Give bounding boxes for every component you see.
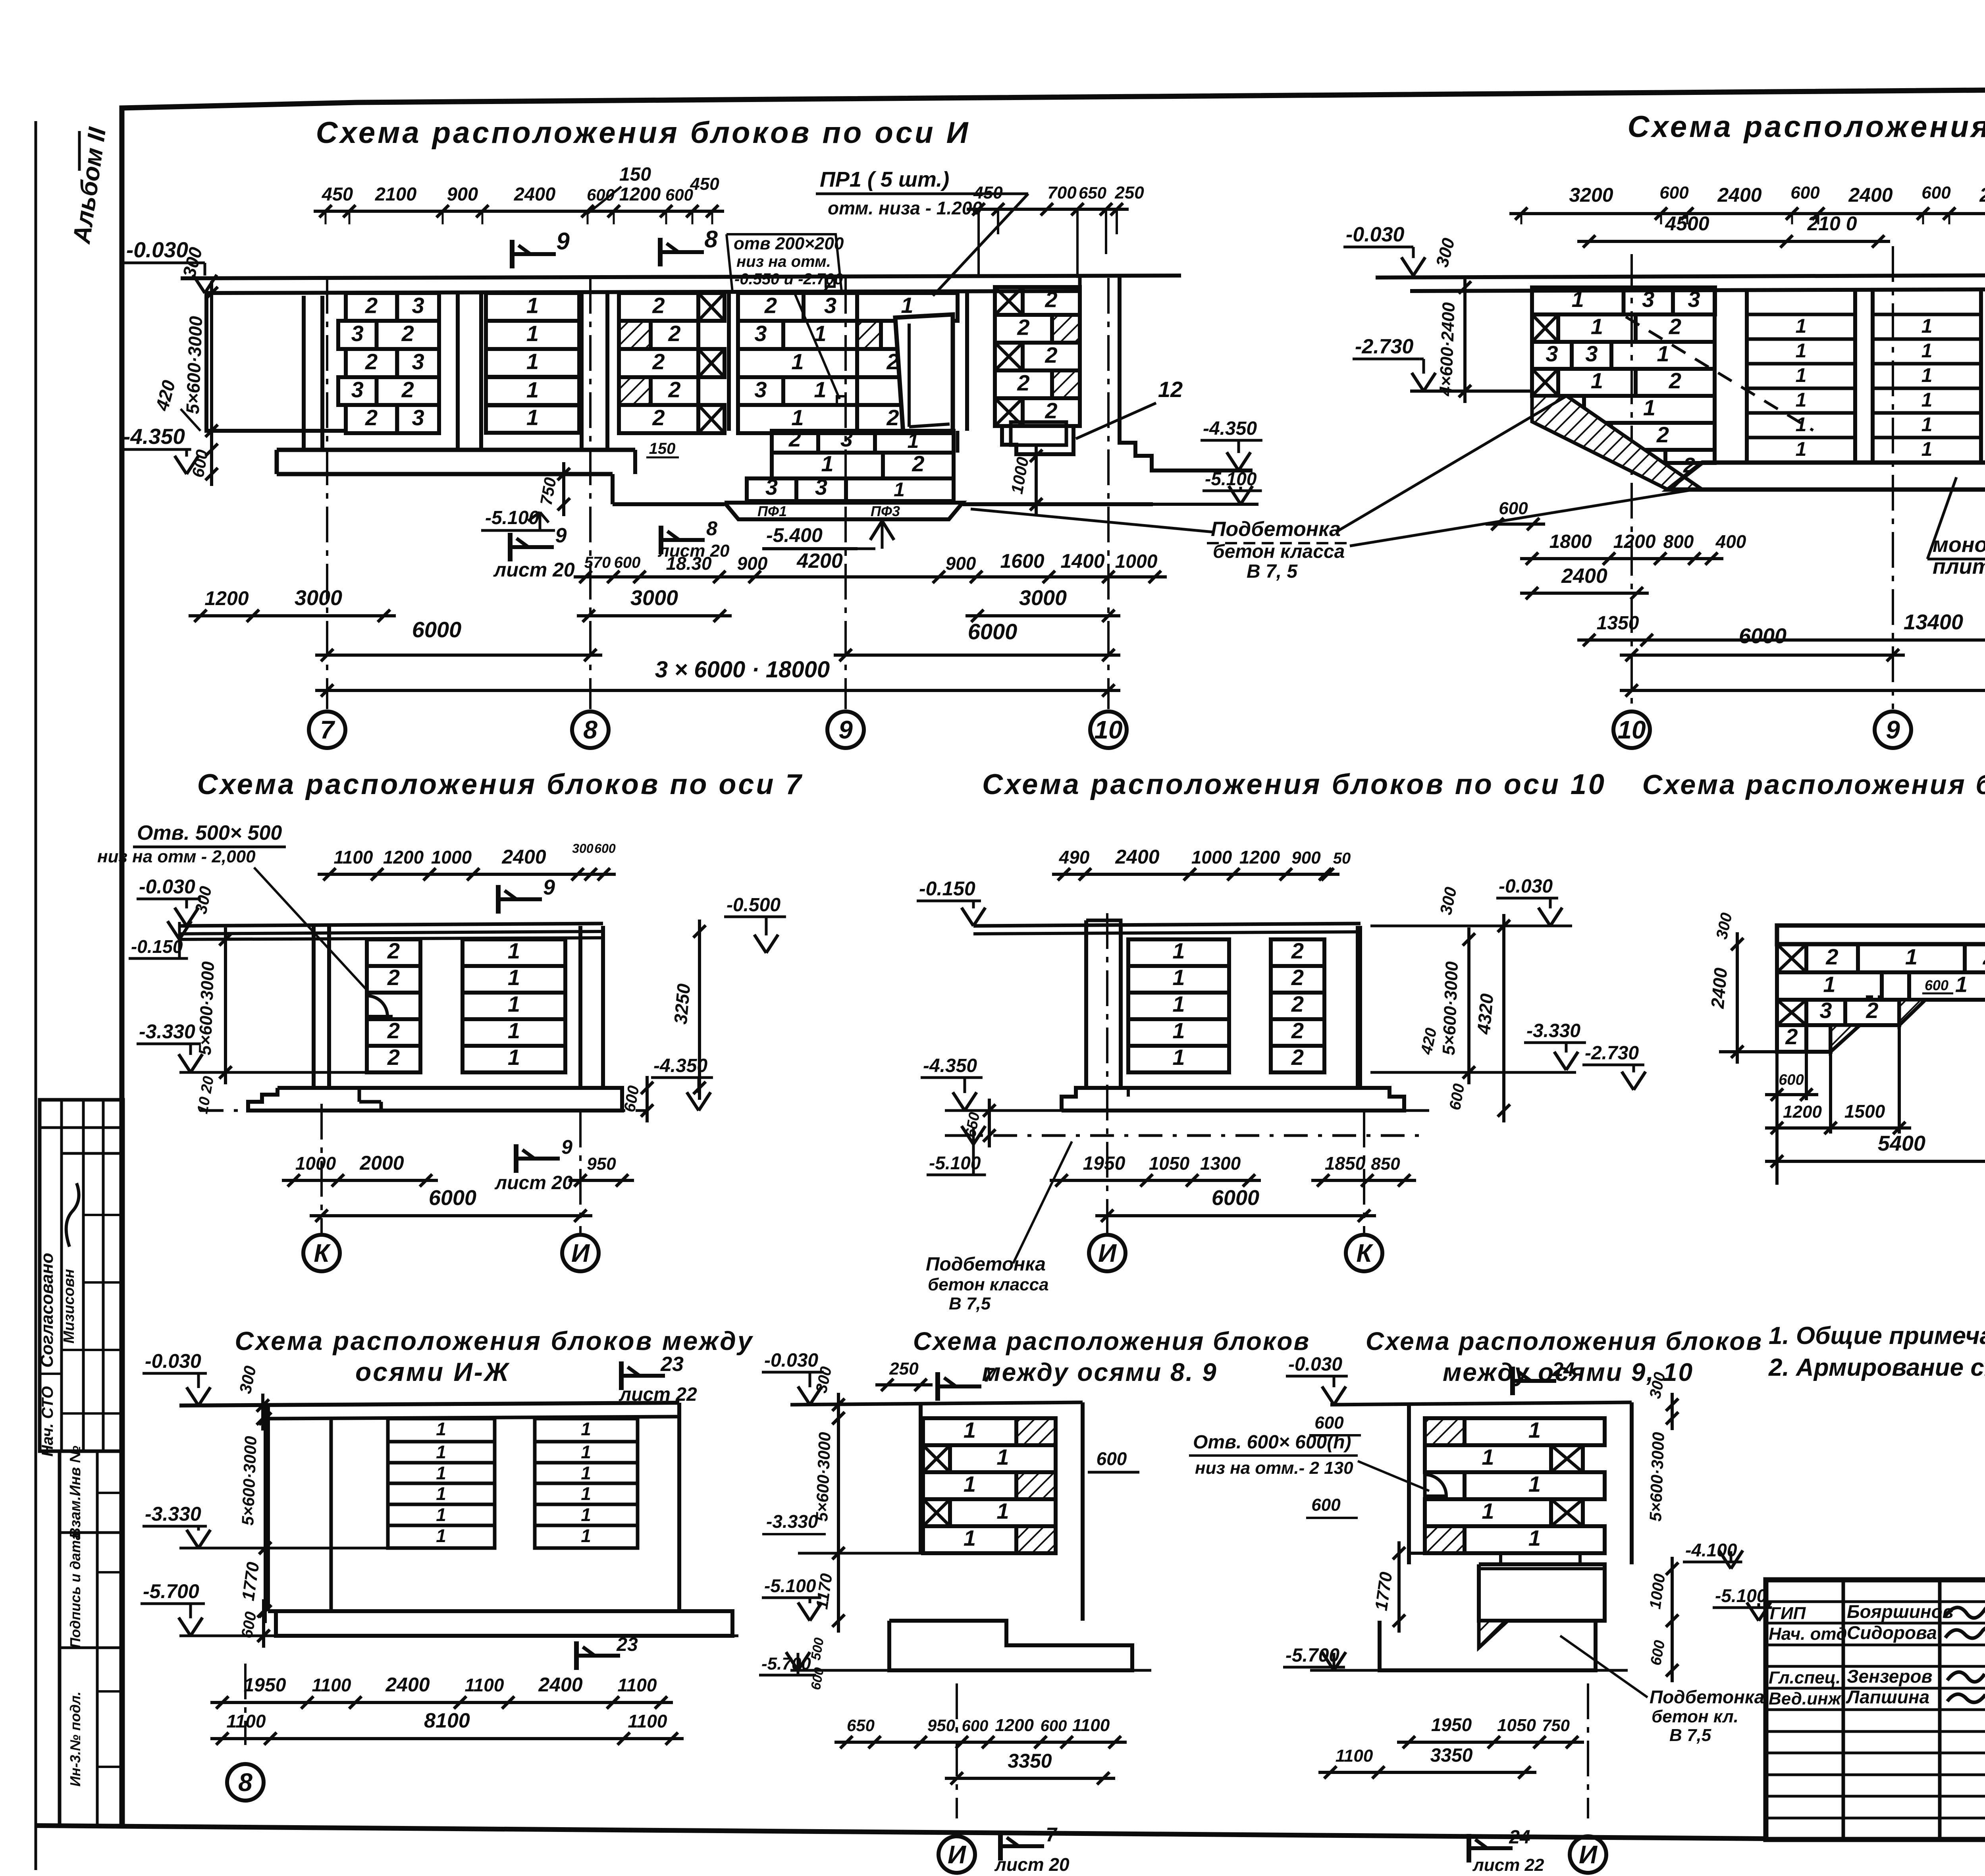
svg-text:Схема расположения блоков м: Схема расположения блоков между: [235, 1326, 754, 1355]
svg-text:900: 900: [737, 553, 768, 574]
svg-text:600: 600: [594, 841, 616, 856]
svg-text:1: 1: [1172, 965, 1185, 990]
svg-text:1: 1: [436, 1442, 446, 1462]
d7 bottom dims 1950-1100-2400-1100-2400-1100: [210, 1701, 673, 1704]
svg-text:2: 2: [652, 293, 665, 318]
svg-text:1: 1: [1657, 341, 1669, 366]
svg-text:1: 1: [1643, 395, 1655, 420]
d1 central block group D: [738, 293, 804, 321]
svg-text:1600: 1600: [1000, 550, 1044, 572]
svg-text:1: 1: [581, 1483, 591, 1504]
d2 dim row 1350-13400-3250: [1577, 638, 1985, 642]
svg-text:Схема расположения блоков п: Схема расположения блоков по оси 7: [197, 769, 804, 800]
svg-text:2400: 2400: [514, 183, 556, 204]
d4 ground lines: [973, 924, 1361, 926]
svg-text:И: И: [1098, 1239, 1117, 1267]
svg-text:400: 400: [1715, 531, 1746, 552]
svg-text:9: 9: [543, 875, 555, 899]
svg-text:5×600·3000: 5×600·3000: [195, 961, 218, 1055]
svg-text:1: 1: [1482, 1498, 1494, 1523]
svg-text:8: 8: [704, 226, 718, 253]
svg-text:6000: 6000: [1739, 624, 1786, 648]
svg-text:между осями 8. 9: между осями 8. 9: [982, 1358, 1218, 1386]
svg-text:650: 650: [847, 1716, 875, 1735]
d3 wall left column: [312, 926, 316, 1088]
d4 dim 6000: [1095, 1214, 1376, 1217]
d5 wall bottom and verticals: [1777, 1050, 1831, 1054]
svg-text:ПР1 ( 5 шт.): ПР1 ( 5 шт.): [820, 168, 949, 191]
svg-text:Согласовано: Согласовано: [37, 1253, 57, 1367]
svg-text:1100: 1100: [465, 1675, 504, 1695]
d4 wall right edge: [1356, 926, 1360, 1088]
svg-text:1100: 1100: [1336, 1746, 1373, 1766]
svg-text:1: 1: [1905, 944, 1918, 969]
d3 section flag 9 bottom: [514, 1144, 518, 1173]
d5 row1 X-2-1-2: [1777, 944, 1806, 972]
d4 foundation: [1062, 1088, 1404, 1111]
svg-text:Взам.Инв №: Взам.Инв №: [67, 1446, 84, 1539]
d5 level -2.730 left line: [1719, 1050, 1777, 1053]
svg-text:Схема расположения блоков п: Схема расположения блоков по А-А: [1628, 110, 1985, 144]
d2 dashed diagonal: [1626, 317, 1813, 430]
svg-text:низ на отм.- 2 130: низ на отм.- 2 130: [1195, 1458, 1353, 1478]
svg-text:6000: 6000: [429, 1186, 476, 1210]
svg-text:13400: 13400: [1904, 610, 1963, 634]
svg-text:ГИП: ГИП: [1770, 1604, 1806, 1623]
axis circle I4: [1587, 1683, 1589, 1818]
svg-text:-2.730: -2.730: [1585, 1043, 1639, 1064]
svg-text:1: 1: [1796, 389, 1807, 411]
d3 top dim row: [318, 873, 616, 876]
svg-text:бетон класса: бетон класса: [1213, 541, 1345, 562]
d2 top dimension row: [1509, 212, 1985, 215]
svg-text:7: 7: [320, 715, 335, 744]
svg-text:ПФ3: ПФ3: [871, 503, 900, 519]
d4 wall left column: [1086, 920, 1121, 926]
svg-text:1: 1: [1921, 315, 1933, 337]
svg-text:2400: 2400: [1717, 184, 1761, 206]
d1 top dimension line 450-2100-900-2400-600-1200-600-450: [314, 210, 724, 213]
d3 section flag 9: [496, 885, 501, 914]
d1 lintel PR1 outline: [895, 314, 953, 433]
svg-text:Нач. отд: Нач. отд: [1769, 1624, 1847, 1644]
d1 block stack A rows 2-3: [346, 293, 397, 321]
svg-text:Гл.спец.: Гл.спец.: [1769, 1668, 1840, 1687]
svg-text:1200: 1200: [1783, 1102, 1822, 1122]
svg-text:Ин-3.№ подл.: Ин-3.№ подл.: [67, 1691, 83, 1787]
svg-text:1: 1: [436, 1525, 446, 1546]
svg-text:2400: 2400: [1115, 846, 1159, 868]
d1 lower dim row 570-600-1830-900-4200-900-1600-1400-1000: [574, 575, 1167, 578]
svg-text:900: 900: [946, 553, 976, 574]
svg-text:2: 2: [668, 321, 680, 346]
d1 dim row 1200-3000 x3: [189, 614, 396, 617]
svg-text:3: 3: [351, 321, 364, 346]
svg-text:1: 1: [436, 1504, 446, 1525]
d3 ground lines: [179, 924, 603, 926]
svg-text:1: 1: [1796, 364, 1807, 386]
svg-text:950: 950: [587, 1154, 616, 1174]
svg-text:В 7, 5: В 7, 5: [1247, 561, 1298, 582]
svg-text:-4.350: -4.350: [1203, 418, 1257, 439]
svg-text:1: 1: [1955, 972, 1968, 997]
svg-text:210 0: 210 0: [1807, 212, 1857, 235]
d3 bottom dim 1000-2000: [282, 1179, 438, 1182]
svg-text:1200: 1200: [1613, 531, 1656, 552]
svg-text:1: 1: [996, 1444, 1009, 1469]
d3 dim 950: [569, 1179, 634, 1182]
svg-text:1: 1: [1921, 438, 1933, 460]
svg-text:-0.030: -0.030: [764, 1350, 818, 1371]
svg-text:600: 600: [614, 554, 641, 571]
svg-text:Подпись и дата: Подпись и дата: [67, 1532, 83, 1648]
svg-text:-3.330: -3.330: [145, 1503, 201, 1525]
svg-text:1: 1: [1528, 1417, 1541, 1442]
svg-text:1100: 1100: [618, 1675, 657, 1695]
svg-text:1200: 1200: [204, 587, 249, 609]
svg-text:3350: 3350: [1008, 1750, 1052, 1772]
d1 section flag 9: [510, 240, 515, 268]
svg-text:Лапшина: Лапшина: [1846, 1687, 1929, 1707]
d8 flag 7 bottom: [998, 1832, 1003, 1861]
svg-text:1: 1: [526, 405, 539, 430]
d4 bedding dashed: [945, 1109, 1429, 1112]
svg-text:1: 1: [964, 1471, 976, 1496]
d3 foundation: [248, 1088, 622, 1111]
svg-text:600: 600: [1041, 1717, 1067, 1735]
svg-text:2. Армирование стен смотрет: 2. Армирование стен смотреть на листах 2…: [1768, 1354, 1985, 1381]
svg-text:2400: 2400: [1561, 565, 1607, 588]
svg-text:1: 1: [1921, 339, 1933, 362]
d9 section flag 24: [1510, 1367, 1515, 1395]
svg-text:9: 9: [556, 228, 570, 255]
axis line 7: [326, 278, 328, 709]
svg-text:2400: 2400: [501, 846, 546, 868]
d3 bottom level dashed: [200, 1109, 649, 1112]
svg-text:2: 2: [387, 1045, 400, 1070]
d5 row4 2 hatch: [1777, 1025, 1806, 1052]
svg-text:3000: 3000: [630, 586, 678, 610]
svg-text:1000: 1000: [431, 847, 472, 868]
d5 row2 1-600-1: [1777, 972, 1882, 1000]
axis circle 10b: [1613, 711, 1650, 748]
svg-text:-5.700: -5.700: [143, 1580, 199, 1602]
title block outer: [1766, 1580, 1985, 1839]
svg-text:300: 300: [572, 841, 594, 856]
sheet outer edge line: [35, 121, 37, 1870]
svg-text:450: 450: [690, 174, 719, 194]
d5 dim 1200-1500: [1765, 1126, 1911, 1130]
svg-text:2: 2: [1291, 1018, 1304, 1043]
d9 dims 1100-3350: [1318, 1771, 1536, 1774]
svg-text:1: 1: [436, 1483, 446, 1504]
svg-text:2: 2: [387, 1018, 400, 1043]
svg-text:-5.400: -5.400: [766, 524, 823, 546]
d9 pedestal: [1479, 1564, 1605, 1621]
d7 foundation slab: [276, 1611, 732, 1636]
svg-text:1: 1: [791, 349, 804, 374]
d1 group D below-ground rows: [772, 431, 818, 453]
d8 bottom dims: [834, 1741, 1127, 1744]
svg-text:-0.150: -0.150: [131, 936, 183, 957]
d1 block stack C with cross boxes: [619, 293, 698, 321]
svg-text:1300: 1300: [1200, 1153, 1241, 1174]
d9 ground line: [1330, 1402, 1632, 1405]
axis circle 7: [309, 711, 345, 748]
svg-text:1: 1: [581, 1525, 591, 1546]
svg-text:В 7,5: В 7,5: [1669, 1726, 1711, 1745]
svg-text:3000: 3000: [1019, 586, 1067, 610]
d1 dim row 3x6000=18000: [315, 689, 1120, 692]
svg-text:1: 1: [508, 965, 520, 990]
d1 dim row 6000 right: [834, 654, 1120, 657]
svg-text:1100: 1100: [312, 1675, 351, 1695]
d8 bottom dashed: [790, 1669, 1151, 1672]
svg-text:бетон класса: бетон класса: [928, 1275, 1049, 1294]
sidebar lower table: [60, 1451, 123, 1826]
svg-text:3: 3: [1546, 341, 1558, 366]
svg-text:3: 3: [765, 474, 778, 499]
d2 dim 2400: [1520, 592, 1649, 595]
d9 wall lower part lines: [1409, 1552, 1479, 1555]
svg-text:1200: 1200: [995, 1716, 1034, 1735]
svg-text:1: 1: [814, 377, 826, 402]
svg-text:1: 1: [908, 430, 919, 453]
svg-text:650: 650: [1079, 183, 1106, 202]
podbetonka leader lines: [971, 509, 1213, 532]
svg-text:8: 8: [238, 1768, 252, 1797]
d4 brick stack 2s: [1271, 939, 1324, 966]
svg-text:1950: 1950: [244, 1675, 286, 1696]
svg-text:1000: 1000: [295, 1153, 336, 1174]
svg-text:5×600·3000: 5×600·3000: [1646, 1432, 1668, 1522]
svg-text:-0.500: -0.500: [727, 895, 781, 916]
svg-text:3: 3: [754, 321, 767, 346]
svg-text:2: 2: [387, 938, 400, 963]
svg-text:3250: 3250: [670, 983, 694, 1025]
svg-text:И: И: [571, 1239, 590, 1267]
axis circle 9: [827, 711, 864, 748]
axis circle 10: [1090, 711, 1127, 748]
svg-text:1: 1: [581, 1463, 591, 1483]
svg-text:-0.030: -0.030: [1346, 223, 1405, 246]
svg-text:4200: 4200: [796, 549, 843, 573]
svg-text:лист 20: лист 20: [493, 559, 575, 581]
svg-text:2: 2: [365, 349, 378, 374]
svg-text:250: 250: [1114, 183, 1144, 202]
svg-text:600: 600: [1921, 183, 1951, 202]
d3 dim 6000: [310, 1214, 592, 1217]
svg-text:осями И-Ж: осями И-Ж: [355, 1357, 510, 1386]
svg-text:1: 1: [508, 938, 520, 963]
svg-text:Зензеров: Зензеров: [1847, 1666, 1932, 1687]
svg-text:1: 1: [526, 377, 539, 402]
svg-text:3: 3: [815, 474, 827, 499]
svg-text:2100: 2100: [375, 183, 417, 204]
svg-text:1: 1: [508, 991, 520, 1016]
d1 pilaster column left: [302, 296, 306, 450]
svg-text:1: 1: [996, 1498, 1009, 1523]
svg-text:2: 2: [652, 405, 665, 430]
svg-text:6000: 6000: [968, 619, 1018, 644]
svg-text:50: 50: [1333, 850, 1351, 867]
svg-text:5×600·3000: 5×600·3000: [812, 1432, 834, 1522]
axis line 10b: [1630, 254, 1633, 709]
axis circle 8: [572, 711, 609, 748]
d3 wall right edge: [578, 926, 582, 1088]
d7 brick group 1: [388, 1419, 495, 1442]
svg-text:2: 2: [1983, 944, 1985, 969]
svg-text:8100: 8100: [424, 1709, 470, 1732]
svg-text:1950: 1950: [1431, 1714, 1472, 1735]
svg-text:2: 2: [668, 377, 680, 402]
svg-text:низ на отм - 2,000: низ на отм - 2,000: [97, 847, 256, 866]
svg-text:лист 22: лист 22: [1472, 1855, 1544, 1875]
svg-text:4×600·2400: 4×600·2400: [1436, 302, 1459, 397]
svg-text:2400: 2400: [1848, 184, 1892, 206]
svg-text:1350: 1350: [1597, 613, 1639, 634]
svg-text:1100: 1100: [334, 847, 373, 868]
d1 left vertical dim line: [210, 281, 213, 486]
svg-text:отв 200×200: отв 200×200: [734, 234, 844, 253]
svg-text:2: 2: [912, 451, 924, 476]
d1 left wall edge: [204, 293, 208, 433]
svg-text:5×600·3000: 5×600·3000: [1439, 961, 1462, 1055]
svg-text:1: 1: [508, 1045, 520, 1070]
svg-text:1200: 1200: [1239, 847, 1280, 868]
d7 dims 1100-8100-1100: [210, 1737, 684, 1740]
svg-text:9: 9: [561, 1136, 572, 1158]
frame bottom line: [36, 1826, 1766, 1839]
svg-text:бетон кл.: бетон кл.: [1652, 1707, 1738, 1726]
axis circle I: [579, 1112, 582, 1233]
svg-text:лист 20: лист 20: [657, 541, 730, 561]
d8 dim 3350: [945, 1777, 1115, 1780]
svg-text:3: 3: [412, 405, 424, 430]
svg-text:1100: 1100: [1072, 1716, 1110, 1735]
svg-text:2400: 2400: [1979, 184, 1985, 206]
svg-text:800: 800: [1663, 531, 1694, 552]
svg-text:10: 10: [1617, 715, 1646, 744]
d2 dim 6000 left: [1620, 654, 1905, 657]
svg-text:И: И: [948, 1840, 967, 1869]
d2 monolithic slab: [1668, 463, 1985, 490]
svg-text:Схема расположения блоков п: Схема расположения блоков по оси И: [316, 116, 971, 150]
d1 block stack B rows 1: [486, 293, 579, 321]
svg-text:1: 1: [1482, 1444, 1494, 1469]
d7 brick group 2: [535, 1419, 638, 1442]
svg-text:9: 9: [1886, 715, 1900, 744]
svg-text:3: 3: [754, 377, 767, 402]
d3 brick stack 1s: [463, 939, 565, 966]
d7 section flag 23: [619, 1361, 624, 1390]
svg-text:3: 3: [1819, 998, 1832, 1023]
d9 flag 24 bottom: [1467, 1834, 1471, 1863]
svg-text:-0.030: -0.030: [139, 875, 195, 898]
svg-text:низ на отм.: низ на отм.: [736, 253, 831, 270]
svg-text:5×600·3000: 5×600·3000: [238, 1436, 260, 1526]
svg-text:1: 1: [1591, 368, 1603, 393]
d9 bottom dims 1950-1050-750: [1397, 1741, 1584, 1744]
d2 second dim row 4500-2100: [1577, 240, 1890, 243]
svg-text:24: 24: [1552, 1358, 1575, 1380]
svg-text:монолитная: монолитная: [1933, 533, 1985, 557]
title block left table rows: [1766, 1600, 1985, 1603]
svg-text:2400: 2400: [385, 1674, 430, 1696]
svg-text:3: 3: [1688, 287, 1700, 312]
svg-text:-2.730: -2.730: [1355, 335, 1414, 358]
svg-text:12: 12: [1158, 377, 1183, 402]
svg-text:1850: 1850: [1325, 1153, 1366, 1174]
svg-text:900: 900: [1291, 848, 1321, 868]
svg-text:5×600·3000: 5×600·3000: [182, 316, 206, 415]
svg-text:1: 1: [581, 1504, 591, 1525]
d8 brick rows: [923, 1418, 1016, 1445]
svg-text:24: 24: [1509, 1827, 1530, 1848]
d3 brick stack 2s: [367, 939, 420, 966]
svg-text:7: 7: [1046, 1824, 1058, 1846]
svg-text:1500: 1500: [1844, 1101, 1885, 1122]
svg-text:1400: 1400: [1060, 550, 1104, 572]
d1 element 12 stepped box: [1002, 426, 1073, 454]
svg-text:1200: 1200: [383, 847, 424, 868]
svg-text:отм. низа - 1.200: отм. низа - 1.200: [828, 198, 982, 218]
svg-text:600: 600: [665, 185, 693, 204]
d1 wall strip between A and B: [456, 293, 460, 450]
svg-text:1: 1: [526, 321, 539, 346]
svg-text:1: 1: [581, 1442, 591, 1462]
svg-text:К: К: [314, 1239, 331, 1267]
d1 wall strip between B and C: [580, 293, 584, 450]
svg-text:2: 2: [401, 321, 414, 346]
svg-text:Мизисовн: Мизисовн: [61, 1269, 77, 1344]
svg-text:2: 2: [764, 293, 777, 318]
svg-text:-0.030: -0.030: [1288, 1354, 1342, 1375]
svg-text:2: 2: [1017, 314, 1029, 339]
axis circle I3: [956, 1683, 958, 1818]
axis circle 9b: [1875, 711, 1911, 748]
svg-text:-5.100: -5.100: [1205, 469, 1257, 489]
svg-text:3: 3: [351, 377, 364, 402]
svg-text:1: 1: [1572, 287, 1584, 312]
svg-text:1: 1: [901, 293, 913, 318]
d1 wall strip between C and D: [727, 293, 731, 431]
d8 wall outline: [919, 1405, 923, 1553]
svg-text:150: 150: [619, 164, 651, 185]
svg-text:3350: 3350: [1430, 1745, 1473, 1766]
svg-text:2: 2: [1291, 991, 1304, 1016]
axis line 8: [589, 278, 592, 709]
svg-text:2: 2: [365, 405, 378, 430]
d9 brick rows: [1425, 1418, 1465, 1445]
svg-text:-5.100: -5.100: [764, 1575, 816, 1596]
svg-text:2: 2: [652, 349, 665, 374]
svg-text:600: 600: [962, 1717, 989, 1735]
svg-text:1000: 1000: [1115, 551, 1158, 572]
svg-text:1: 1: [526, 349, 539, 374]
svg-text:1: 1: [1796, 315, 1807, 337]
d1 pit trapezoid bottom: [725, 503, 963, 519]
svg-text:1: 1: [436, 1419, 446, 1439]
svg-text:600: 600: [1790, 183, 1820, 202]
svg-text:1050: 1050: [1497, 1716, 1536, 1735]
svg-text:1: 1: [1796, 438, 1807, 460]
axis circle K2: [1363, 1112, 1365, 1233]
d7 bottom dashed level: [179, 1635, 738, 1637]
svg-text:3200: 3200: [1569, 184, 1613, 206]
d1 foundation slab: [277, 448, 635, 452]
svg-text:1. Общие примечания смотре: 1. Общие примечания смотреть лист 18.: [1769, 1322, 1985, 1350]
